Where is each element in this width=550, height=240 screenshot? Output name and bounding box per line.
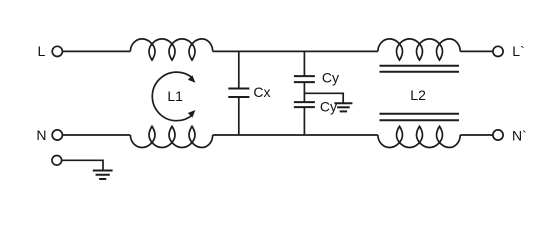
ground at Cy midpoint [334, 103, 352, 111]
chassis ground symbol [93, 171, 113, 180]
inductor L2 bottom winding [378, 126, 460, 147]
terminal L [52, 46, 62, 56]
svg-text:L: L [38, 43, 46, 59]
wire L2 to L' terminal [460, 50, 493, 52]
wire between Cy capacitors [303, 82, 305, 102]
wire Cy branch upper [303, 51, 305, 76]
inductor L1 bottom winding [130, 126, 212, 147]
svg-text:L1: L1 [167, 88, 183, 104]
wire L terminal to L1 [62, 50, 130, 52]
svg-text:L2: L2 [410, 87, 426, 103]
wire Cx branch lower [238, 97, 240, 135]
wire Cy midpoint to ground [304, 93, 343, 103]
wire L2 to N' terminal [460, 134, 493, 136]
inductor L2 top winding [378, 39, 460, 60]
svg-text:N: N [36, 127, 46, 143]
terminal chassis ground [52, 156, 62, 166]
wire Cx branch upper [238, 51, 240, 88]
wire L1 to Cx node (bottom rail) [213, 134, 378, 136]
wire Cy branch lower [303, 107, 305, 135]
svg-text:Cy: Cy [322, 69, 339, 85]
terminal L' [493, 46, 503, 56]
wire ground terminal to ground symbol [62, 160, 103, 170]
svg-text:L`: L` [512, 43, 524, 59]
terminal N' [493, 130, 503, 140]
L1 coupling rotation arrow [152, 72, 195, 121]
capacitor Cx [228, 89, 249, 98]
inductor L2 core lower lines [380, 114, 460, 120]
svg-text:Cx: Cx [253, 84, 270, 100]
wire L1 to Cx node (top rail) [213, 50, 378, 52]
svg-text:Cy: Cy [320, 99, 337, 115]
inductor L1 top winding [130, 39, 212, 60]
inductor L2 core upper lines [380, 66, 460, 72]
capacitor Cy upper [294, 76, 315, 82]
terminal N [52, 130, 62, 140]
wire N terminal to L1 [62, 134, 130, 136]
capacitor Cy lower [294, 102, 315, 107]
svg-text:N`: N` [512, 127, 527, 143]
